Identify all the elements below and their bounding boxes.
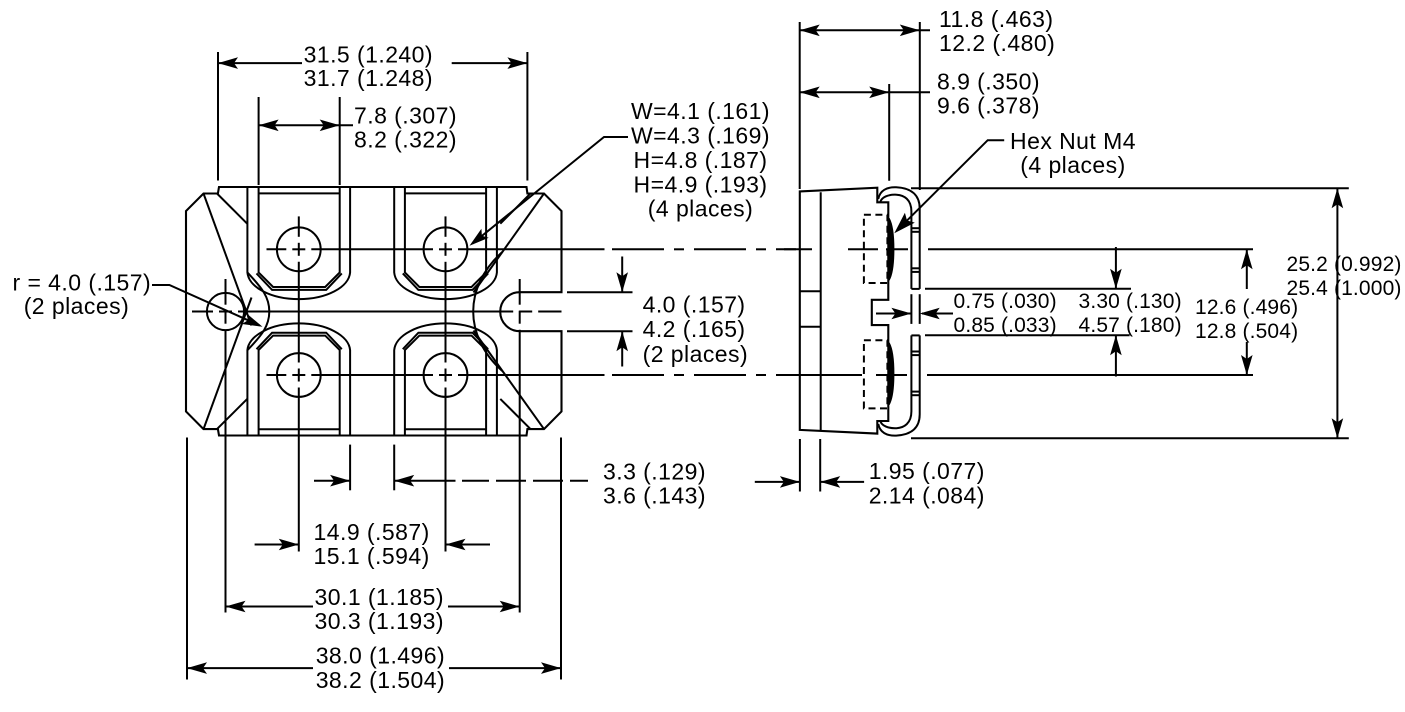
svg-text:r = 4.0 (.157): r = 4.0 (.157) [13, 270, 152, 296]
centerline slot vertical [519, 279, 521, 305]
leader line for corner radius r=4.0 [152, 285, 260, 326]
dimension 7.8 (.307) / 8.2 (.322) line and arrows [259, 124, 353, 126]
svg-text:31.7 (1.248): 31.7 (1.248) [304, 65, 433, 91]
top terminal end cap [911, 288, 919, 290]
svg-text:H=4.8 (.187): H=4.8 (.187) [634, 147, 768, 173]
dimension 31.5 (1.240) / 31.7 (1.248) lines and arrows [218, 62, 302, 64]
screw hole upper-right [424, 227, 468, 271]
hex nut bottom edge-on profile [889, 343, 894, 405]
dimension 3.30/4.57 extension lines [925, 288, 1131, 290]
svg-text:7.8 (.307): 7.8 (.307) [354, 103, 457, 129]
svg-text:11.8 (.463): 11.8 (.463) [939, 6, 1053, 32]
dimension 25.2/25.4 extension lines [911, 187, 1349, 189]
bottom terminal step ticks [911, 351, 919, 353]
dimension 31.5 (1.240) / 31.7 (1.248) extension lines [217, 52, 219, 181]
dimension 25.2/25.4 vertical line and arrows [1336, 188, 1338, 438]
screw hole upper-left [277, 227, 321, 271]
svg-text:Hex Nut M4: Hex Nut M4 [1010, 128, 1136, 154]
top terminal clip inner curve [880, 195, 911, 289]
svg-text:25.4 (1.000): 25.4 (1.000) [1287, 277, 1402, 300]
dimension 30.1/30.3 lines and arrows [226, 606, 314, 608]
dimension 1.95/2.14 arrows [755, 481, 800, 483]
svg-text:31.5 (1.240): 31.5 (1.240) [304, 41, 433, 67]
svg-text:12.6 (.496): 12.6 (.496) [1195, 296, 1298, 319]
left waist hourglass curve radius r=4.0 [247, 272, 269, 350]
svg-text:14.9 (.587): 14.9 (.587) [314, 519, 430, 545]
screw hole lower-left [277, 353, 321, 397]
centerline side view bottom row [784, 374, 862, 376]
top-view package body outline [186, 187, 562, 436]
svg-text:3.3 (.129): 3.3 (.129) [603, 459, 706, 485]
svg-text:12.8 (.504): 12.8 (.504) [1195, 320, 1298, 343]
molding diagonal bottom-right steep [474, 331, 545, 430]
dimension 12.6/12.8 arrows [1246, 249, 1248, 289]
svg-text:(2 places): (2 places) [643, 341, 748, 367]
molding diagonal top-left 45deg [217, 194, 247, 224]
hex nut pocket hidden outline top [864, 215, 888, 283]
dimension 38.0/38.2 extension lines [186, 438, 188, 680]
dimension 11.8/12.2 line and arrows [800, 29, 930, 31]
hex nut top edge-on profile [889, 219, 894, 281]
terminal block upper-right inner recess octagon [405, 188, 486, 288]
terminal block upper-right recess lower double line [403, 273, 488, 290]
right waist hourglass curve radius r=4.0 [473, 252, 502, 371]
terminal block lower-left inner recess octagon [259, 336, 340, 435]
svg-text:4.2 (.165): 4.2 (.165) [643, 316, 746, 342]
svg-text:38.2 (1.504): 38.2 (1.504) [316, 667, 445, 693]
svg-text:8.2 (.322): 8.2 (.322) [354, 127, 457, 153]
leader line for terminal window size W/H [473, 137, 629, 244]
svg-text:1.95 (.077): 1.95 (.077) [869, 458, 985, 484]
dimension 3.3/3.6 arrows and dashes [314, 480, 350, 482]
centerline right column vertical [445, 216, 447, 236]
dimension 3.3/3.6 extension lines [349, 445, 351, 491]
svg-text:38.0 (1.496): 38.0 (1.496) [316, 643, 445, 669]
terminal block upper-left recess lower double line [257, 273, 342, 290]
leader line hex nut [897, 140, 1004, 230]
dimension 8.9/9.6 extension line [888, 84, 890, 181]
centerline top row horizontal [267, 248, 287, 250]
dimension 11.8/12.2 extension lines [799, 22, 801, 189]
middle terminal segment seen through slot [910, 294, 912, 324]
svg-text:12.2 (.480): 12.2 (.480) [939, 30, 1055, 56]
svg-text:2.14 (.084): 2.14 (.084) [869, 482, 985, 508]
top terminal clip outer curve [878, 187, 919, 289]
dimension 4.0/4.2 arrows [621, 257, 623, 293]
bottom terminal clip outer curve [878, 335, 919, 435]
dimension 4.0/4.2 slot extension lines [567, 291, 633, 293]
centerline bottom row horizontal [267, 374, 287, 376]
molding diagonal top-right 45deg [500, 194, 530, 224]
svg-text:25.2 (0.992): 25.2 (0.992) [1287, 253, 1402, 276]
svg-text:(4 places): (4 places) [648, 196, 753, 222]
bottom terminal end cap [911, 334, 919, 336]
svg-text:H=4.9 (.193): H=4.9 (.193) [634, 171, 768, 197]
centerline middle horizontal through mounting hole and slot [192, 311, 213, 313]
dimension 38.0/38.2 lines and arrows [187, 667, 313, 669]
terminal block lower-left outer outline [247, 323, 350, 435]
dimension 1.95/2.14 extension lines [799, 439, 801, 492]
molding diagonal bottom-left steep [204, 298, 252, 430]
dimension 7.8 (.307) / 8.2 (.322) extension lines [258, 97, 260, 185]
svg-text:4.0 (.157): 4.0 (.157) [643, 292, 746, 318]
svg-text:15.1 (.594): 15.1 (.594) [314, 543, 430, 569]
terminal block upper-left outer outline [247, 187, 350, 299]
svg-text:30.1 (1.185): 30.1 (1.185) [315, 584, 444, 610]
dimension 0.75/0.85 arrows [876, 313, 911, 315]
side-view package body outline [800, 188, 889, 434]
svg-text:0.75 (.030): 0.75 (.030) [954, 290, 1057, 313]
svg-text:9.6 (.378): 9.6 (.378) [937, 92, 1040, 118]
molding diagonal bottom-left 45deg [217, 399, 247, 429]
terminal block lower-right recess upper double line [403, 333, 488, 350]
svg-text:3.6 (.143): 3.6 (.143) [603, 483, 706, 509]
side-view slot hidden edge upper [800, 290, 821, 292]
terminal block upper-left inner recess octagon [259, 188, 340, 288]
svg-text:(2 places): (2 places) [24, 293, 129, 319]
hex nut pocket hidden outline bottom [864, 340, 888, 408]
bottom terminal clip inner curve [880, 335, 911, 428]
side-view baseplate inner line [820, 192, 822, 430]
svg-text:W=4.3 (.169): W=4.3 (.169) [631, 122, 770, 148]
top terminal step ticks [911, 227, 919, 229]
svg-text:30.3 (1.193): 30.3 (1.193) [315, 608, 444, 634]
svg-text:(4 places): (4 places) [1020, 152, 1125, 178]
svg-text:3.30 (.130): 3.30 (.130) [1079, 290, 1182, 313]
centerline left column vertical [298, 216, 300, 236]
terminal block upper-right outer outline [394, 187, 497, 299]
centerline side view top row [784, 248, 812, 250]
molding diagonal top-right steep [474, 194, 545, 293]
dimension 3.30/4.57 arrows [1115, 247, 1117, 289]
molding diagonal bottom-right 45deg [500, 399, 530, 429]
terminal block lower-right inner recess octagon [405, 336, 486, 435]
dimension 14.9/15.1 lines and arrows [255, 544, 299, 546]
left mounting hole [207, 293, 244, 330]
svg-text:W=4.1 (.161): W=4.1 (.161) [631, 98, 770, 124]
molding diagonal top-left steep [204, 194, 252, 326]
centerline mounting hole vertical [225, 279, 227, 305]
dimension 8.9/9.6 line and arrows [800, 91, 930, 93]
svg-text:8.9 (.350): 8.9 (.350) [937, 68, 1040, 94]
terminal block lower-right outer outline [394, 323, 497, 435]
side-view slot hidden edge lower [800, 326, 821, 328]
svg-text:4.57 (.180): 4.57 (.180) [1079, 314, 1182, 337]
terminal block lower-left recess upper double line [257, 333, 342, 350]
svg-text:0.85 (.033): 0.85 (.033) [954, 314, 1057, 337]
screw hole lower-right [424, 353, 468, 397]
